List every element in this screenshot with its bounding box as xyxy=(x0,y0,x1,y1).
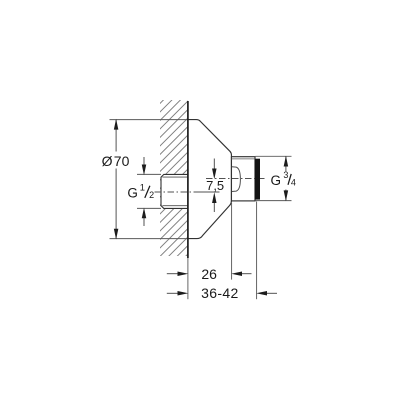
dimension 26 right arrow xyxy=(231,271,251,276)
chrome end-face bar xyxy=(255,159,260,200)
wall face line xyxy=(187,101,189,258)
flange cone body xyxy=(188,120,231,239)
svg-text:7,5: 7,5 xyxy=(206,178,224,193)
G1/2 bottom arrow xyxy=(142,208,147,226)
dimension 36-42 right arrow xyxy=(256,291,277,296)
wall section hatch xyxy=(3,90,352,260)
7,5 bottom arrow xyxy=(212,192,217,212)
bottom extension line at nut shoulder xyxy=(231,203,233,280)
7,5 top arrow xyxy=(212,159,217,180)
svg-text:3: 3 xyxy=(283,170,288,180)
outlet nut xyxy=(231,157,255,201)
inlet centerline solid segment xyxy=(197,191,220,193)
G3/4 dimension line xyxy=(284,156,289,201)
G1/2 top arrow xyxy=(142,157,147,175)
svg-text:26: 26 xyxy=(201,266,217,282)
G3/4 top extension line xyxy=(256,155,292,157)
svg-text:4: 4 xyxy=(291,178,296,188)
G3/4 bottom extension line xyxy=(256,200,292,202)
svg-text:G: G xyxy=(271,173,282,188)
outlet centerline xyxy=(206,178,266,180)
G1/2 threaded nipple xyxy=(161,174,188,208)
G1/2 top extension line xyxy=(137,173,161,175)
dimension 26 left arrow xyxy=(167,271,189,276)
nut inner barrel xyxy=(232,167,241,192)
D70 bottom extension line xyxy=(110,238,189,240)
label G3/4 xyxy=(271,170,296,188)
bottom extension line at chrome end xyxy=(256,202,258,300)
svg-text:70: 70 xyxy=(114,153,130,169)
bottom extension line at wall face xyxy=(187,258,189,299)
D70 top extension line xyxy=(110,119,189,121)
inlet centerline xyxy=(155,191,198,193)
label G1/2 xyxy=(127,181,154,200)
dimension 36-42 left arrow xyxy=(167,291,189,296)
D70 dimension line xyxy=(114,119,119,239)
svg-text:Ø: Ø xyxy=(102,153,113,169)
svg-text:G: G xyxy=(127,185,138,200)
G1/2 bottom extension line xyxy=(137,207,161,209)
svg-text:36-42: 36-42 xyxy=(201,285,239,301)
svg-text:1: 1 xyxy=(140,181,145,192)
svg-text:2: 2 xyxy=(149,190,154,200)
